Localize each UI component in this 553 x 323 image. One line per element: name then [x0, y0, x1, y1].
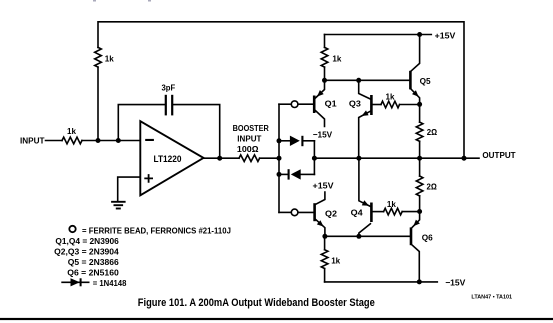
- svg-text:BOOSTER: BOOSTER: [233, 123, 270, 133]
- svg-text:3pF: 3pF: [162, 83, 176, 93]
- svg-text:Figure 101. A 200mA Output Wid: Figure 101. A 200mA Output Wideband Boos…: [138, 297, 375, 309]
- svg-text:Q2,Q3 = 2N3904: Q2,Q3 = 2N3904: [54, 247, 119, 256]
- svg-text:INPUT: INPUT: [237, 134, 262, 144]
- svg-text:Q6 = 2N5160: Q6 = 2N5160: [67, 268, 119, 277]
- svg-text:Q1,Q4 = 2N3906: Q1,Q4 = 2N3906: [55, 237, 119, 246]
- svg-text:INPUT: INPUT: [20, 136, 45, 146]
- svg-text:1k: 1k: [332, 54, 341, 64]
- svg-text:+15V: +15V: [313, 180, 334, 190]
- svg-text:= 1N4148: = 1N4148: [93, 279, 127, 288]
- svg-text:1k: 1k: [331, 256, 340, 266]
- svg-text:1k: 1k: [105, 54, 114, 64]
- svg-text:LTAN47 • TA101: LTAN47 • TA101: [471, 294, 512, 300]
- svg-text:LT1220: LT1220: [154, 154, 182, 164]
- svg-text:−15V: −15V: [445, 278, 465, 288]
- svg-text:+15V: +15V: [435, 31, 456, 41]
- svg-text:2Ω: 2Ω: [427, 127, 438, 137]
- svg-text:Q2: Q2: [325, 208, 337, 218]
- svg-text:2Ω: 2Ω: [427, 181, 438, 191]
- svg-text:Q4: Q4: [351, 207, 363, 217]
- svg-text:OUTPUT: OUTPUT: [482, 150, 516, 160]
- svg-text:100Ω: 100Ω: [237, 144, 259, 154]
- svg-text:−15V: −15V: [313, 129, 333, 139]
- svg-text:1k: 1k: [67, 126, 76, 136]
- svg-text:Q3: Q3: [349, 99, 361, 109]
- svg-text:Q5: Q5: [420, 76, 431, 86]
- svg-text:Q1: Q1: [325, 99, 337, 109]
- svg-text:Q5 = 2N3866: Q5 = 2N3866: [68, 258, 119, 267]
- svg-text:1k: 1k: [386, 92, 395, 102]
- svg-text:1k: 1k: [387, 199, 396, 209]
- svg-text:Q6: Q6: [422, 232, 433, 242]
- svg-text:= FERRITE BEAD, FERRONICS #21-: = FERRITE BEAD, FERRONICS #21-110J: [82, 226, 231, 235]
